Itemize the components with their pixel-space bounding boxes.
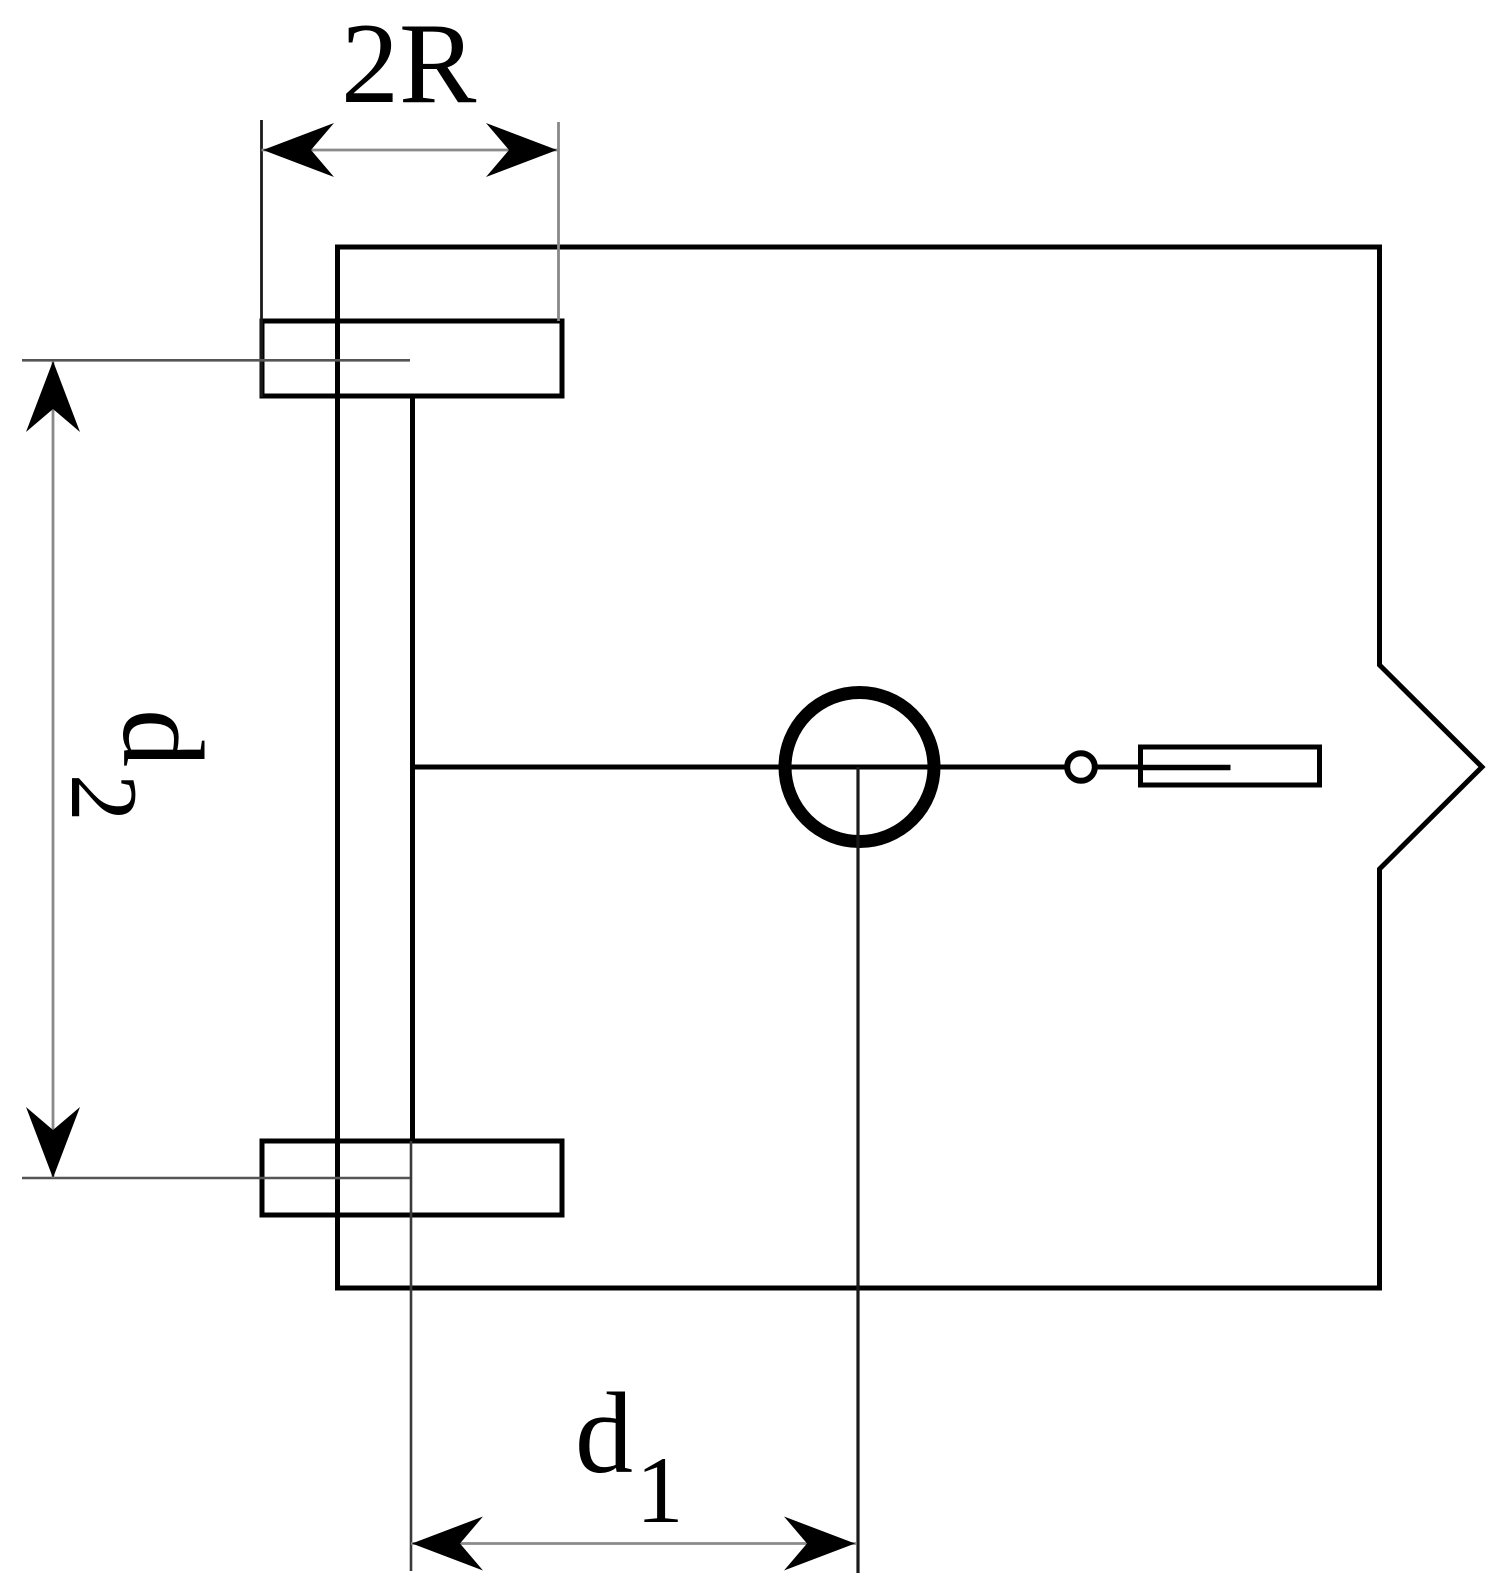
centre line through circle down: [856, 767, 859, 1573]
wire rod to small circle: [413, 765, 1067, 770]
vertical rod between pads: [410, 396, 415, 1141]
svg-text:2R: 2R: [341, 0, 477, 128]
bottom plate (capacitive pad): [262, 1141, 562, 1215]
detector / connector rectangle: [1141, 747, 1320, 785]
detector inner pin line: [1143, 765, 1231, 771]
arrowhead 2R right: [486, 123, 557, 177]
dimension line d1: [411, 1542, 856, 1545]
arrowhead d1 right: [784, 1517, 855, 1571]
arrowhead d2 top: [26, 361, 80, 432]
node: loop/generator circle: [785, 693, 934, 842]
ground plate outline with break notch: [338, 247, 1483, 1288]
dimension line d2: [52, 361, 55, 1178]
extension line 2R left: [260, 120, 263, 397]
node: small terminal circle: [1067, 753, 1095, 781]
arrowhead d1 left: [412, 1517, 483, 1571]
top plate (capacitive pad): [262, 321, 562, 396]
extension line 2R right: [557, 122, 560, 321]
extension line d1 left: [410, 1141, 413, 1571]
extension line d2 bottom: [22, 1177, 410, 1180]
arrowhead d2 bottom: [26, 1107, 80, 1178]
wire small circle to detector: [1096, 765, 1143, 770]
arrowhead 2R left: [263, 123, 334, 177]
extension line d2 top: [22, 359, 410, 362]
dimension line 2R: [262, 149, 559, 152]
